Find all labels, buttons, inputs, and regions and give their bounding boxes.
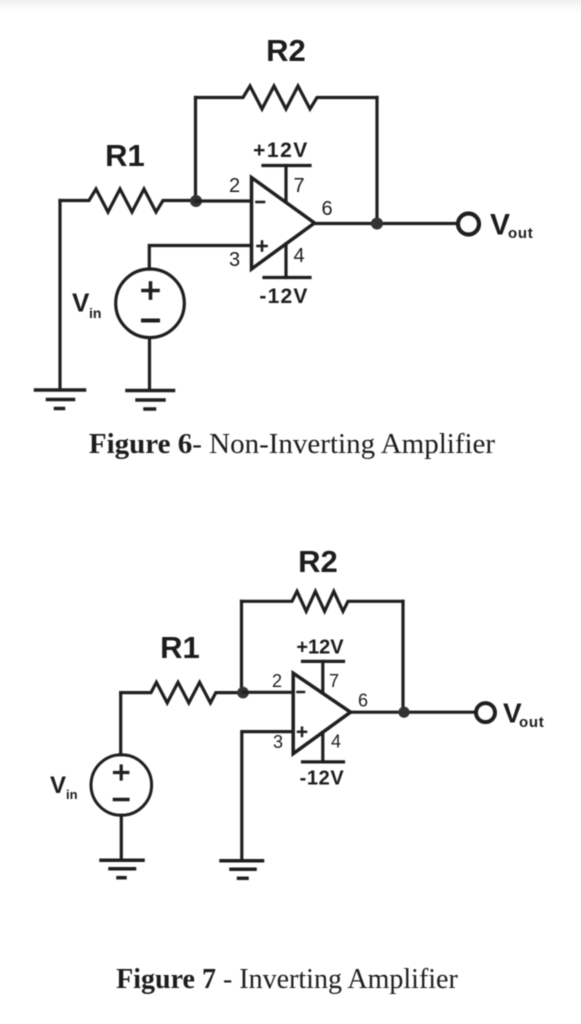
wire Vin source to ground (fig6) (148, 338, 151, 390)
wire node C to op-amp pin 2 (fig7) (243, 691, 293, 694)
resistor R2 (top feedback, fig6) (196, 86, 378, 109)
op-amp U2 triangle (fig7) (293, 673, 350, 754)
wire op-amp output to Vout terminal (fig7) (351, 711, 476, 714)
node C junction dot (inverting input node, fig7) (237, 687, 249, 699)
Vin source plus sign (fig7) (115, 766, 128, 779)
svg-text:2: 2 (272, 671, 282, 691)
+12V supply rail bar (fig7) (303, 660, 344, 663)
op-amp U1 triangle (fig6) (252, 178, 315, 270)
svg-text:+12V: +12V (253, 139, 309, 162)
svg-text:7: 7 (329, 671, 339, 691)
svg-text:7: 7 (293, 175, 304, 197)
Vin source minus sign (fig7) (115, 798, 128, 802)
svg-text:out: out (519, 714, 544, 731)
op-amp U1 minus sign at pin 2 (fig6) (257, 201, 265, 204)
svg-text:out: out (508, 225, 533, 242)
ground (under Vin, fig6) (127, 391, 174, 410)
svg-text:R1: R1 (105, 138, 145, 173)
Vin source plus sign (fig6) (143, 283, 158, 298)
svg-text:in: in (89, 305, 101, 321)
Vout label (fig6) (490, 209, 533, 243)
resistor R2 (feedback, fig7) (242, 591, 404, 611)
ground (middle, fig7) (221, 861, 263, 879)
wire pin 7 to +12V rail (fig6) (284, 166, 287, 203)
wire op-amp output to Vout terminal (fig6) (315, 222, 457, 225)
wire pin 4 to -12V rail (fig6) (284, 244, 287, 278)
op-amp U2 minus sign at pin 2 (fig7) (298, 691, 305, 694)
wire pin 3 to ground (fig7) (242, 732, 293, 860)
Vout label (fig7) (503, 698, 544, 732)
terminal Vout circle (fig6) (458, 214, 479, 235)
svg-text:6: 6 (321, 198, 332, 220)
svg-text:R2: R2 (266, 33, 306, 68)
-12V supply rail bar (fig6) (264, 276, 310, 279)
wire R2 right leg down to output node (fig6) (375, 98, 378, 224)
svg-text:R2: R2 (298, 544, 338, 579)
wire Vin source to ground (fig7) (120, 815, 123, 860)
op-amp U1 plus sign at pin 3 (fig6) (258, 242, 267, 251)
voltage source Vin circle (fig7) (91, 755, 152, 816)
svg-text:Figure 7 - Inverting Amplifier: Figure 7 - Inverting Amplifier (116, 964, 458, 995)
svg-text:-12V: -12V (300, 768, 345, 790)
node B junction dot (output node, fig6) (371, 218, 383, 230)
op-amp U2 plus sign at pin 3 (fig7) (298, 728, 306, 736)
svg-text:3: 3 (273, 732, 283, 752)
svg-text:V: V (50, 772, 66, 799)
svg-text:4: 4 (331, 732, 341, 752)
svg-text:-12V: -12V (259, 285, 308, 308)
svg-text:2: 2 (229, 175, 240, 197)
resistor R1 (input, fig7) (121, 682, 243, 703)
wire pin 4 to -12V rail (fig7) (321, 732, 324, 762)
node D junction dot (output node, fig7) (398, 707, 409, 718)
svg-text:R1: R1 (160, 630, 200, 665)
svg-text:6: 6 (358, 691, 368, 711)
wire R2 left leg down to inverting input node (fig7) (240, 601, 243, 692)
voltage source Vin circle (fig6) (116, 269, 185, 338)
terminal Vout circle (fig7) (476, 703, 495, 722)
wire R2 right leg down to output node (fig7) (401, 601, 404, 712)
svg-text:3: 3 (229, 249, 240, 271)
+12V supply rail bar (fig6) (263, 164, 310, 167)
svg-text:in: in (66, 787, 78, 802)
svg-text:Figure 6- Non-Inverting Amplif: Figure 6- Non-Inverting Amplifier (89, 428, 496, 460)
-12V supply rail bar (fig7) (303, 760, 344, 763)
svg-text:+12V: +12V (296, 637, 344, 659)
wire R2 left leg down to inverting input node (fig6) (194, 98, 197, 202)
node A junction dot (inverting input node, fig6) (190, 195, 202, 207)
ground (left, fig6) (36, 390, 85, 409)
wire R1 left to Vin source (fig7) (119, 693, 122, 755)
Vin label (fig6) (72, 288, 101, 322)
Vin label (fig7) (50, 772, 78, 802)
resistor R1 (input, fig6) (60, 189, 196, 212)
wire pin 7 to +12V rail (fig7) (321, 661, 324, 693)
Vin source minus sign (fig6) (143, 319, 158, 323)
svg-text:4: 4 (293, 245, 304, 267)
wire node A to op-amp pin 2 (fig6) (196, 199, 252, 202)
svg-text:V: V (72, 288, 90, 318)
svg-text:V: V (490, 209, 510, 242)
ground (under Vin, fig7) (101, 860, 143, 877)
wire Vin left branch vertical (fig6) (58, 201, 61, 390)
wire pin 3 to Vin source (fig6) (149, 246, 251, 270)
